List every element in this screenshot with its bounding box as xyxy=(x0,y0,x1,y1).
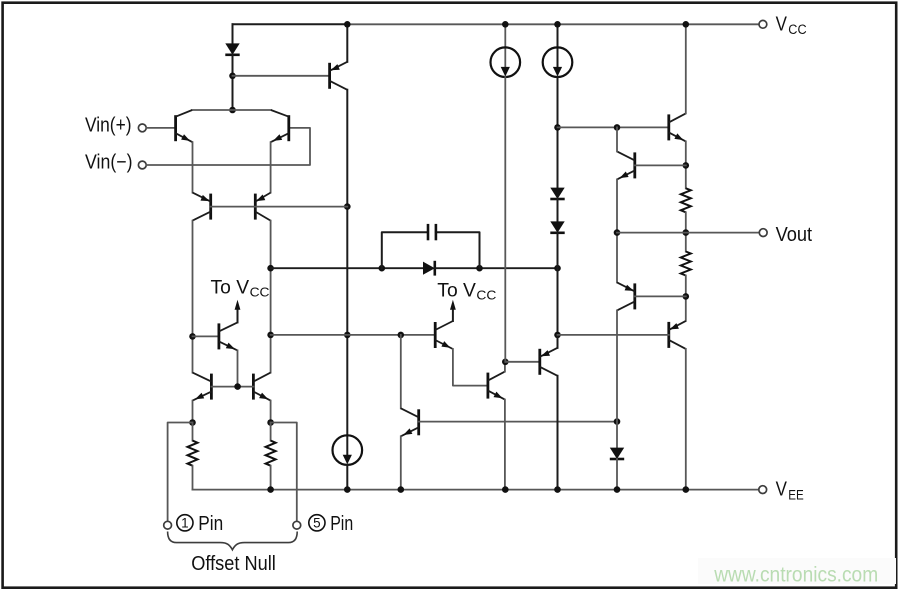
wire I2 feed xyxy=(557,24,559,67)
wire Vout wire xyxy=(617,232,759,234)
diode D4 xyxy=(610,448,624,459)
node Vout node xF xyxy=(683,229,690,236)
node Vcc/Q14 xyxy=(683,21,690,28)
node Q7 base node xyxy=(189,333,196,340)
label Vee EE xyxy=(788,487,804,502)
wire I1 down xyxy=(504,77,506,362)
node Vcc/Q8 xyxy=(344,21,351,28)
label watermark xyxy=(713,564,878,587)
transistor Q8 xyxy=(330,62,348,90)
diode D1 xyxy=(225,43,239,54)
resistor R1 xyxy=(188,441,198,466)
wire Vin(+) to Q1 base xyxy=(146,127,175,129)
wire Q17 emitter to Vee xyxy=(504,400,506,490)
node Q3Q4 base node xyxy=(344,203,351,210)
svg-text:To V: To V xyxy=(211,278,250,299)
svg-text:V: V xyxy=(776,479,788,501)
svg-text:CC: CC xyxy=(476,288,496,303)
wire Vcc corner to D1 xyxy=(232,24,234,43)
terminal Vin(-) xyxy=(138,161,146,169)
transistor Q7 xyxy=(219,322,238,350)
wire Q19 base xyxy=(635,295,686,297)
node xB cross handled above xyxy=(398,332,405,339)
svg-text:To V: To V xyxy=(437,281,476,302)
transistor Q1 xyxy=(176,110,193,142)
diode D2 xyxy=(550,188,564,199)
label To Vcc (right) CC xyxy=(476,288,496,303)
terminal Vcc xyxy=(759,20,767,28)
terminal Vee xyxy=(759,486,767,494)
svg-text:Offset Null: Offset Null xyxy=(191,553,276,575)
node R2/Vee xyxy=(267,486,274,493)
node xD y127 node xyxy=(554,124,561,131)
wire Q22 emitter to Vee xyxy=(400,436,402,489)
pin 5 number xyxy=(309,515,325,531)
wire R1 to Vee xyxy=(192,466,194,490)
diode D3 xyxy=(550,221,564,232)
svg-text:EE: EE xyxy=(788,487,804,502)
wire diff collector tie xyxy=(192,109,271,111)
wire comp row right xyxy=(435,267,558,269)
transistor Q4 xyxy=(255,193,270,221)
wire Q4 collector down xyxy=(270,221,272,373)
wire Q14 collector to Vcc xyxy=(685,24,687,113)
wire Q16 collector up xyxy=(452,308,454,321)
wire cap right branch xyxy=(436,232,480,268)
wire Q9 emitter up xyxy=(557,335,559,348)
resistor R9 xyxy=(681,188,691,212)
label To Vcc (left) To V xyxy=(211,278,250,299)
label Vin(+) xyxy=(85,115,132,137)
wire D3 down xyxy=(557,233,559,335)
wire Q5 emitter down xyxy=(192,401,194,423)
wire cap left branch xyxy=(382,232,428,268)
svg-text:Vin(+): Vin(+) xyxy=(85,115,132,137)
node Vcc/I1 xyxy=(502,21,509,28)
wire offset null right xyxy=(271,423,297,522)
svg-text:CC: CC xyxy=(250,285,270,300)
transistor Q17 xyxy=(488,372,505,400)
transistor Q5 xyxy=(193,373,212,401)
wire Q14 emitter down xyxy=(685,141,687,188)
terminal pin5 xyxy=(293,521,301,529)
offset null brace xyxy=(168,532,298,550)
node R2 top node xyxy=(267,419,274,426)
transistor Q22 xyxy=(401,408,419,436)
node diff pair top xyxy=(229,107,236,114)
transistor Q20 xyxy=(669,321,686,349)
wire Vee rail xyxy=(193,489,759,491)
node Vout node xE xyxy=(614,229,621,236)
resistor R2 xyxy=(266,441,276,466)
node Q17/Vee xyxy=(502,486,509,493)
node y335 left start xyxy=(267,332,274,339)
watermark background xyxy=(698,558,896,584)
node cap left node xyxy=(379,265,386,272)
wire R2 lead xyxy=(270,423,272,441)
svg-text:Pin: Pin xyxy=(198,513,223,535)
node y127/xE node xyxy=(614,124,621,131)
wire Q3Q4 base tie xyxy=(211,206,348,208)
wire Q7 base xyxy=(193,335,219,337)
label Vee V xyxy=(776,479,788,501)
node I3/Vee xyxy=(344,486,351,493)
node Q22/Vee xyxy=(398,486,405,493)
terminal pin1 xyxy=(164,521,172,529)
svg-text:1: 1 xyxy=(181,516,189,531)
node cap right node xyxy=(476,265,483,272)
transistor Q19 xyxy=(617,282,635,310)
transistor Q18 xyxy=(617,151,635,179)
wire Q20 collector to Vee xyxy=(685,349,687,490)
label Vcc CC xyxy=(788,22,807,37)
node Vcc/I2 xyxy=(554,21,561,28)
node Q14e/R9 xyxy=(683,162,690,169)
wire Vcc rail left (dark) xyxy=(233,23,348,25)
wire xE upper seg xyxy=(616,127,618,151)
label Pin (5) xyxy=(330,513,353,535)
arrow to Vcc (Q7) xyxy=(235,300,241,310)
wire Q3 collector down xyxy=(192,221,194,373)
transistor Q6 xyxy=(253,373,270,401)
wire D2 to D3 xyxy=(557,199,559,221)
wire Q9 base xyxy=(505,361,540,363)
node D1/Q8 base xyxy=(229,73,236,80)
current source I2 xyxy=(543,47,573,77)
current source I3 xyxy=(333,435,363,465)
wire Q18 base xyxy=(635,164,686,166)
label Pin (1) xyxy=(198,513,223,535)
wire Q7 emitter down xyxy=(237,350,239,386)
wire Q8 collector bus xyxy=(346,90,348,456)
node xD y335 node xyxy=(554,332,561,339)
pin 1 number xyxy=(177,515,193,531)
label Vcc V xyxy=(776,13,788,35)
wire D4 to Vee xyxy=(616,459,618,490)
wire Q1 emitter to Q3 xyxy=(192,142,194,192)
wire Q19 collector down xyxy=(616,310,618,447)
svg-text:Vout: Vout xyxy=(776,224,813,246)
transistor Q14 xyxy=(669,113,686,141)
label Vin(-) xyxy=(85,152,133,174)
wire long base wire y422 xyxy=(419,421,617,423)
node y422/xE node xyxy=(614,418,621,425)
resistor R10 xyxy=(681,252,691,276)
wire xD to Q14 base xyxy=(558,126,669,128)
diode D5 xyxy=(423,261,435,276)
node comp node left xyxy=(267,265,274,272)
wire I3 to Vee xyxy=(346,465,348,490)
svg-text:www.cntronics.com: www.cntronics.com xyxy=(713,564,878,587)
wire Q16 emitter to Q17 base xyxy=(453,349,488,386)
wire Q9 collector to Vee xyxy=(557,376,559,490)
node Q9/Vee xyxy=(554,486,561,493)
node Q20/Vee xyxy=(683,486,690,493)
wire Vin(-) to Q2 base xyxy=(146,128,310,165)
wire Q5Q6 base tie xyxy=(211,386,253,388)
wire I1 feed xyxy=(504,24,506,67)
wire R9 to Vout node xyxy=(685,212,687,251)
svg-text:V: V xyxy=(776,13,788,35)
node Q7e/Q5Q6 bases xyxy=(234,383,241,390)
wire offset null left xyxy=(168,423,193,522)
wire Q8 base xyxy=(233,75,330,77)
wire x400 column xyxy=(400,335,402,408)
wire Q2 emitter to Q4 xyxy=(270,142,272,192)
wire D1 to node row xyxy=(232,55,234,110)
transistor Q2 xyxy=(271,110,289,142)
svg-text:Vin(−): Vin(−) xyxy=(85,152,133,174)
label To Vcc (right) To V xyxy=(437,281,476,302)
terminal Vout xyxy=(759,229,767,237)
wire comp row left xyxy=(271,267,423,269)
node xB y335 node xyxy=(344,332,351,339)
node R1 top node xyxy=(189,419,196,426)
arrow to Vcc (Q16) xyxy=(450,300,456,310)
node Q19 base node xyxy=(683,293,690,300)
label Vout xyxy=(776,224,813,246)
capacitor C1 xyxy=(428,224,436,240)
wire Q20 base wire xyxy=(558,334,669,336)
transistor Q9 xyxy=(540,348,558,376)
wire Q18 emitter to Vout xyxy=(616,179,618,282)
label To Vcc (left) CC xyxy=(250,285,270,300)
node Q17c node xyxy=(502,359,509,366)
wire Q8 emitter to Vcc xyxy=(346,24,348,62)
node comp row right node xyxy=(554,265,561,272)
svg-text:5: 5 xyxy=(313,516,321,531)
wire R1 lead xyxy=(192,423,194,441)
svg-text:CC: CC xyxy=(788,22,807,37)
wire Vcc rail xyxy=(347,23,759,25)
current source I1 xyxy=(491,47,521,77)
terminal Vin(+) xyxy=(138,124,146,132)
wire Q7 collector up xyxy=(237,309,239,323)
wire R10 to Q19 node xyxy=(685,276,687,321)
svg-text:Pin: Pin xyxy=(330,513,353,535)
label Offset Null xyxy=(191,553,276,575)
wire Q17 collector up xyxy=(504,362,506,372)
wire Q6 collector to Q16 base xyxy=(271,334,436,336)
node D4/Vee xyxy=(614,486,621,493)
transistor Q3 xyxy=(193,193,211,221)
transistor Q16 xyxy=(435,321,453,349)
wire R2 to Vee xyxy=(270,466,272,490)
wire I2 down to D2 xyxy=(557,77,559,188)
wire Q6 emitter down xyxy=(270,401,272,423)
